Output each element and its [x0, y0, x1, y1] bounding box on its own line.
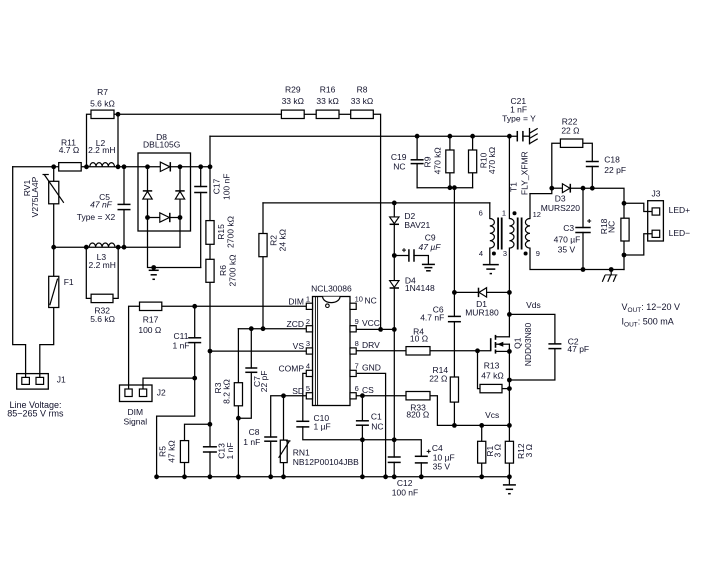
- label line voltage: [10, 400, 62, 410]
- wire: [210, 350, 306, 352]
- capacitor C1: [356, 421, 369, 425]
- label C5: [99, 192, 110, 202]
- label C18: [604, 154, 620, 164]
- value R5: [167, 440, 177, 462]
- svg-text:2700 kΩ: 2700 kΩ: [228, 255, 238, 287]
- wire: [170, 166, 210, 168]
- svg-text:4.7 Ω: 4.7 Ω: [59, 145, 80, 155]
- capacitor C12: [388, 457, 401, 462]
- svg-text:C11: C11: [174, 331, 189, 341]
- pin 3 VS: [293, 339, 310, 351]
- connector J3: [648, 201, 664, 241]
- label R32: [94, 305, 110, 315]
- capacitor C11: [188, 338, 201, 343]
- wire: [238, 372, 251, 418]
- wire: [393, 203, 395, 217]
- wire: [393, 440, 395, 457]
- wire: [40, 308, 54, 378]
- svg-text:3 Ω: 3 Ω: [493, 444, 503, 457]
- svg-text:47 pF: 47 pF: [567, 344, 589, 354]
- svg-text:1 nF: 1 nF: [172, 341, 189, 351]
- pin 9 VCC: [355, 317, 380, 328]
- label LED+: [669, 205, 691, 215]
- wire: [356, 328, 394, 330]
- label R14: [433, 365, 449, 375]
- wire: [420, 463, 422, 477]
- label R3: [213, 382, 223, 393]
- wire: [238, 328, 306, 330]
- pin 7 GND: [355, 361, 381, 372]
- label C13: [217, 443, 227, 459]
- svg-text:NC: NC: [393, 162, 405, 172]
- label R12: [516, 443, 526, 459]
- svg-text:3 Ω: 3 Ω: [524, 444, 534, 457]
- label DIM signal: [128, 407, 144, 417]
- svg-text:C18: C18: [604, 154, 620, 164]
- wire: [417, 187, 473, 189]
- wire: [54, 246, 180, 248]
- wire: [509, 349, 555, 380]
- transformer T1 secondary winding: [525, 219, 530, 249]
- label C21: [511, 96, 527, 106]
- svg-text:470 µF: 470 µF: [554, 235, 581, 245]
- label RN1: [293, 448, 310, 458]
- resistor R15: [206, 221, 214, 245]
- wire: [373, 114, 380, 329]
- label LED-: [669, 228, 691, 238]
- wire: [489, 248, 491, 264]
- svg-text:LED+: LED+: [669, 205, 691, 215]
- wire: [472, 136, 474, 150]
- varistor RV1: [43, 175, 64, 204]
- ground: [422, 264, 435, 270]
- wire: [194, 306, 196, 338]
- wire: [283, 463, 285, 477]
- label R33: [410, 403, 426, 413]
- wire: [393, 462, 395, 476]
- svg-text:47 kΩ: 47 kΩ: [167, 440, 177, 462]
- value C17: [222, 174, 232, 200]
- value D3: [541, 203, 580, 213]
- svg-text:3: 3: [503, 249, 507, 258]
- diode D4: [390, 281, 399, 288]
- svg-text:SD: SD: [292, 386, 304, 396]
- value C6: [420, 313, 444, 323]
- label C19: [391, 152, 407, 162]
- label C11: [174, 331, 189, 341]
- svg-text:NC: NC: [365, 295, 377, 305]
- wire: [508, 463, 510, 485]
- wire: [508, 351, 510, 441]
- op-amp U1 pin boxes: [306, 303, 356, 399]
- wire: [113, 247, 118, 298]
- value R8: [351, 96, 373, 106]
- wire: [570, 188, 624, 203]
- wire: [184, 463, 186, 477]
- wire: [416, 164, 418, 188]
- capacitor C18: [586, 162, 599, 167]
- resistor R18: [621, 218, 629, 241]
- value C5 type: [77, 212, 116, 222]
- svg-text:7: 7: [355, 361, 359, 370]
- pin 3: [503, 249, 507, 258]
- label R10: [479, 152, 489, 168]
- svg-text:R8: R8: [357, 85, 368, 95]
- svg-text:NDD03N80: NDD03N80: [523, 322, 533, 366]
- svg-text:C17: C17: [211, 178, 221, 194]
- transistor Q1: [491, 335, 510, 354]
- pin 1: [502, 209, 506, 218]
- wire: [453, 292, 455, 316]
- value R33: [406, 409, 429, 419]
- value D1: [465, 308, 499, 318]
- svg-text:5.6 kΩ: 5.6 kΩ: [90, 314, 115, 324]
- value R29: [282, 96, 304, 106]
- wire: [143, 378, 195, 389]
- svg-text:Type = X2: Type = X2: [77, 212, 116, 222]
- pin 4: [479, 249, 483, 258]
- value L3: [88, 260, 115, 270]
- value line voltage: [7, 409, 64, 419]
- wire: [157, 476, 510, 478]
- wire: [114, 113, 282, 115]
- resistor R5: [180, 441, 188, 463]
- svg-text:22 pF: 22 pF: [259, 371, 269, 393]
- svg-text:10 Ω: 10 Ω: [410, 334, 428, 344]
- value R3: [221, 379, 231, 404]
- wire: [200, 193, 202, 268]
- svg-text:47 kΩ: 47 kΩ: [481, 371, 503, 381]
- wire: [394, 255, 409, 257]
- wire: [623, 203, 625, 218]
- node Vcs: [485, 410, 499, 420]
- resistor R33: [406, 392, 430, 400]
- wire: [454, 291, 478, 293]
- svg-text:22 pF: 22 pF: [604, 165, 626, 175]
- value R15: [226, 216, 236, 248]
- value R6: [228, 255, 238, 287]
- svg-text:NCL30086: NCL30086: [311, 284, 352, 294]
- value C21: [510, 104, 527, 114]
- label Q1: [512, 337, 522, 349]
- svg-text:100 Ω: 100 Ω: [138, 325, 161, 335]
- wire: [129, 306, 140, 389]
- value C4: [433, 453, 455, 463]
- label RV1: [22, 180, 32, 197]
- capacitor C6: [448, 316, 461, 321]
- svg-text:T1: T1: [509, 182, 519, 192]
- label R15: [216, 224, 226, 240]
- capacitor C10: [296, 421, 309, 427]
- value R11: [59, 145, 80, 155]
- wire: [210, 135, 517, 137]
- svg-text:1 nF: 1 nF: [243, 437, 260, 447]
- wire: [582, 188, 584, 227]
- value C3: [554, 235, 581, 245]
- svg-text:NB12P00104JBB: NB12P00104JBB: [293, 457, 359, 467]
- varistor RN1: [279, 440, 291, 463]
- svg-text:C9: C9: [425, 232, 436, 242]
- transformer T1 primary winding: [509, 219, 514, 249]
- value R13: [481, 371, 503, 381]
- value C3 v: [558, 244, 576, 254]
- svg-text:C12: C12: [397, 478, 413, 488]
- value C13: [225, 442, 235, 459]
- wire: [283, 396, 285, 440]
- svg-text:6: 6: [479, 209, 483, 218]
- svg-text:DRV: DRV: [362, 340, 380, 350]
- svg-text:47 nF: 47 nF: [90, 200, 113, 210]
- label R22: [562, 117, 578, 127]
- label C6: [433, 304, 444, 314]
- label U1: [311, 284, 352, 294]
- capacitor C8: [264, 437, 277, 441]
- label D8: [156, 132, 167, 142]
- resistor R22: [560, 139, 582, 147]
- svg-text:IOUT: 500 mA: IOUT: 500 mA: [622, 317, 674, 329]
- diode D2: [390, 217, 399, 224]
- transformer phase dots: [492, 211, 528, 255]
- wire: [430, 350, 491, 352]
- label R8: [357, 85, 368, 95]
- value RN1: [293, 457, 359, 467]
- svg-text:MURS220: MURS220: [541, 203, 580, 213]
- svg-text:100 nF: 100 nF: [222, 174, 232, 200]
- wire: [250, 329, 252, 368]
- value R1: [493, 444, 503, 457]
- wire: [148, 199, 201, 267]
- svg-text:F1: F1: [64, 277, 74, 287]
- svg-text:35 V: 35 V: [558, 244, 576, 254]
- ground: [530, 128, 538, 143]
- wire: [185, 424, 210, 440]
- svg-text:6: 6: [355, 384, 359, 393]
- label R1: [485, 445, 495, 456]
- wire: [357, 373, 385, 476]
- label D4: [405, 275, 416, 285]
- label C12: [397, 478, 413, 488]
- svg-text:R13: R13: [484, 361, 500, 371]
- label F1: [64, 277, 74, 287]
- wire: [356, 350, 406, 352]
- pin 10 NC: [355, 294, 377, 305]
- resistor R14: [450, 377, 458, 402]
- wire: [508, 136, 510, 218]
- wire: [148, 217, 160, 219]
- resistor R29: [281, 110, 304, 118]
- wire: [209, 282, 211, 447]
- value C9 i: [419, 242, 442, 252]
- svg-text:1 nF: 1 nF: [225, 442, 235, 459]
- wire: [117, 114, 119, 167]
- label L2: [96, 138, 106, 148]
- value C18: [604, 165, 626, 175]
- resistor R1: [478, 441, 486, 463]
- value C12: [392, 488, 418, 498]
- wire: [481, 425, 483, 441]
- ground: [149, 268, 159, 280]
- label C17: [211, 178, 221, 194]
- wire: [449, 173, 451, 188]
- wire: [481, 463, 483, 477]
- wire: [170, 217, 180, 219]
- label L3: [97, 252, 107, 262]
- wire: [123, 210, 125, 248]
- diode D8 top: [160, 162, 170, 171]
- svg-text:R16: R16: [320, 85, 336, 95]
- svg-text:VS: VS: [293, 341, 305, 351]
- label D3: [555, 193, 566, 203]
- wire: [81, 166, 160, 168]
- wire: [416, 136, 418, 160]
- wire: [200, 167, 202, 187]
- resistor R8: [351, 110, 374, 118]
- svg-text:2700 kΩ: 2700 kΩ: [226, 216, 236, 248]
- wire: [339, 113, 351, 115]
- svg-text:470 kΩ: 470 kΩ: [487, 147, 497, 174]
- wire: [508, 248, 510, 337]
- label R6: [218, 265, 228, 276]
- capacitor C2: [548, 344, 561, 349]
- wire: [123, 167, 125, 205]
- wire: [530, 188, 552, 193]
- wire: [509, 314, 555, 344]
- label R11: [61, 138, 76, 148]
- resistor R32: [91, 294, 113, 302]
- svg-text:FLY_XFMR: FLY_XFMR: [520, 151, 530, 195]
- wire: [624, 234, 652, 255]
- wire: [304, 113, 316, 115]
- wire: [453, 188, 455, 293]
- svg-text:GND: GND: [362, 362, 381, 372]
- value R22: [561, 125, 579, 135]
- value L2: [88, 145, 115, 155]
- value R2: [278, 229, 288, 251]
- svg-text:8.2 kΩ: 8.2 kΩ: [221, 379, 231, 404]
- diode D8 right: [175, 191, 184, 199]
- svg-text:C3: C3: [563, 223, 574, 233]
- capacitor C21: [517, 131, 523, 142]
- svg-text:12: 12: [533, 210, 541, 219]
- svg-text:J2: J2: [157, 388, 166, 398]
- capacitor C5: [118, 204, 131, 209]
- svg-text:100 nF: 100 nF: [392, 488, 418, 498]
- diode D3: [562, 184, 570, 193]
- label D2: [404, 211, 415, 221]
- wire: [209, 167, 211, 221]
- value R32: [90, 314, 115, 324]
- svg-text:4: 4: [479, 249, 483, 258]
- value C10: [314, 421, 331, 431]
- capacitor C19: [411, 160, 424, 164]
- svg-text:VCC: VCC: [362, 318, 380, 328]
- node junction dots: [51, 112, 626, 479]
- value Q1: [523, 322, 533, 366]
- label C4: [432, 443, 443, 453]
- svg-text:5.6 kΩ: 5.6 kΩ: [90, 99, 115, 109]
- wire: [487, 291, 510, 293]
- wire: [552, 187, 563, 189]
- node Vds: [526, 300, 541, 310]
- capacitor C13: [203, 447, 217, 452]
- svg-text:4: 4: [306, 361, 310, 370]
- wire: [582, 233, 584, 270]
- wire: [237, 329, 239, 383]
- transformer T1 aux winding: [490, 219, 495, 249]
- wire: [147, 167, 149, 191]
- wire: [209, 452, 211, 477]
- label R13: [484, 361, 500, 371]
- resistor R12: [505, 441, 513, 463]
- wire: [552, 143, 561, 188]
- svg-text:35 V: 35 V: [433, 461, 451, 471]
- value C2: [567, 344, 589, 354]
- capacitor C3: [575, 219, 591, 233]
- ground: [602, 270, 617, 282]
- value R16: [316, 96, 338, 106]
- wire: [453, 402, 455, 425]
- resistor R2: [259, 234, 267, 257]
- wire: [393, 224, 395, 280]
- svg-text:C1: C1: [371, 412, 382, 422]
- svg-text:9: 9: [355, 317, 359, 326]
- label C2: [568, 336, 579, 346]
- value C4 v: [433, 461, 451, 471]
- resistor R3: [234, 383, 242, 406]
- svg-text:Q1: Q1: [512, 337, 522, 349]
- label C3: [563, 223, 574, 233]
- value R14: [429, 373, 447, 383]
- resistor R4: [406, 347, 430, 355]
- svg-text:R15: R15: [216, 224, 226, 240]
- label C10: [314, 413, 330, 423]
- label R9: [423, 156, 433, 167]
- wire: [583, 143, 593, 161]
- wire: [53, 167, 55, 182]
- svg-text:47 µF: 47 µF: [419, 242, 442, 252]
- svg-text:8: 8: [355, 339, 359, 348]
- wire: [270, 441, 272, 477]
- svg-text:4.7 nF: 4.7 nF: [420, 313, 444, 323]
- svg-text:1: 1: [502, 209, 506, 218]
- pin 6: [479, 209, 483, 218]
- wire: [502, 388, 509, 390]
- label R17: [143, 315, 159, 325]
- wire: [262, 203, 264, 234]
- pin 12: [533, 210, 541, 219]
- capacitor C7: [245, 368, 257, 372]
- pin 6 CS: [355, 384, 375, 395]
- svg-text:COMP: COMP: [279, 363, 305, 373]
- wire: [179, 199, 181, 247]
- resistor R10: [469, 150, 477, 173]
- value C11: [172, 341, 189, 351]
- wire: [530, 248, 624, 269]
- svg-text:R17: R17: [143, 315, 159, 325]
- value C21 type: [502, 114, 536, 124]
- svg-text:MUR180: MUR180: [465, 308, 499, 318]
- wire: [86, 247, 91, 298]
- svg-text:V275LA4P: V275LA4P: [30, 176, 40, 217]
- svg-text:J3: J3: [652, 189, 661, 199]
- svg-text:3: 3: [306, 339, 310, 348]
- wire: [13, 167, 26, 378]
- value C1: [371, 421, 383, 431]
- value R7: [90, 99, 115, 109]
- svg-text:LED−: LED−: [669, 228, 691, 238]
- svg-text:DIM: DIM: [288, 296, 304, 306]
- svg-text:1N4148: 1N4148: [405, 283, 435, 293]
